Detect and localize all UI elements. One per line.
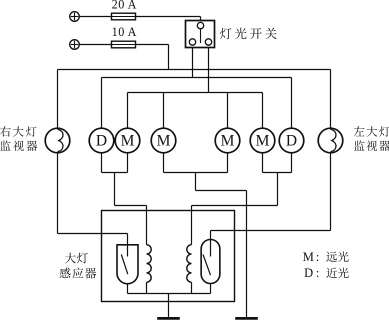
svg-text:M: M <box>221 133 235 150</box>
svg-text:M: M <box>157 133 171 150</box>
svg-text:M: M <box>256 133 270 150</box>
svg-text:10 A: 10 A <box>112 25 137 39</box>
svg-text:M: M <box>121 133 135 150</box>
svg-text::: : <box>316 250 319 264</box>
svg-text:M: M <box>303 250 314 264</box>
svg-text:20 A: 20 A <box>112 0 137 11</box>
svg-text::: : <box>316 266 319 280</box>
svg-text:D: D <box>286 133 297 150</box>
svg-text:D: D <box>304 266 313 280</box>
svg-text:D: D <box>96 133 107 150</box>
